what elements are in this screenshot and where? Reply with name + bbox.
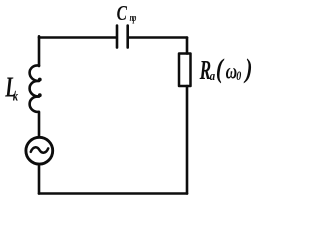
svg-text:пр: пр: [130, 11, 137, 23]
wire right vertical lower (resistor to bottom): [186, 86, 189, 194]
label L_k: [4, 72, 18, 104]
wire bottom horizontal: [39, 192, 187, 195]
svg-text:а: а: [210, 68, 216, 83]
inductor Lk junction knob 2: [38, 93, 42, 97]
inductor Lk coil loop 1: [30, 65, 39, 80]
label C_pr: [117, 2, 137, 26]
AC source sine symbol: [31, 147, 48, 152]
wire right vertical upper (to resistor): [186, 38, 189, 54]
capacitor C_pr plate left: [116, 26, 119, 48]
wire top-left horizontal segment: [39, 36, 116, 39]
svg-text:): ): [244, 55, 253, 85]
svg-text:к: к: [13, 88, 19, 104]
inductor Lk coil loop 2: [30, 81, 39, 96]
wire left vertical upper (top to coil): [38, 36, 41, 66]
inductor Lk junction knob 1: [38, 78, 42, 82]
inductor Lk coil loop 3: [30, 97, 39, 112]
capacitor C_pr plate right: [126, 26, 129, 48]
resistor Ra box: [179, 54, 191, 87]
wire left vertical mid (coil to source): [38, 112, 41, 137]
svg-text:(: (: [216, 55, 225, 85]
label Ra(w0): [199, 55, 253, 85]
AC source circle: [26, 137, 53, 164]
svg-text:0: 0: [236, 70, 241, 83]
wire top-right horizontal segment: [129, 36, 187, 39]
wire left vertical lower (bottom to source): [38, 165, 41, 194]
svg-text:C: C: [117, 2, 128, 26]
